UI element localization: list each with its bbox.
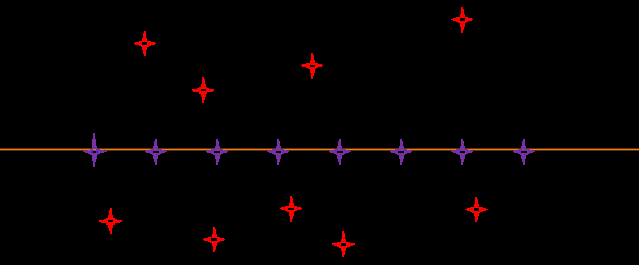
red marker R3 [301,53,323,79]
red marker R6 [203,227,225,252]
purple marker P6 [390,139,412,165]
red marker R2 [192,77,214,103]
purple marker P7 [451,139,473,165]
purple marker P5 [329,139,351,165]
red marker R7 [280,196,302,222]
horizontal orange line y=0 [0,149,639,151]
red marker R1 [134,31,156,56]
red marker R5 [99,208,122,234]
purple marker P2 [145,139,167,165]
purple marker P3 [206,139,228,165]
red marker R9 [465,197,488,222]
purple marker P1 [83,133,107,167]
red marker R4 [451,7,473,33]
red marker R8 [332,231,355,257]
purple marker P4 [267,139,289,165]
purple marker P8 [513,139,535,165]
